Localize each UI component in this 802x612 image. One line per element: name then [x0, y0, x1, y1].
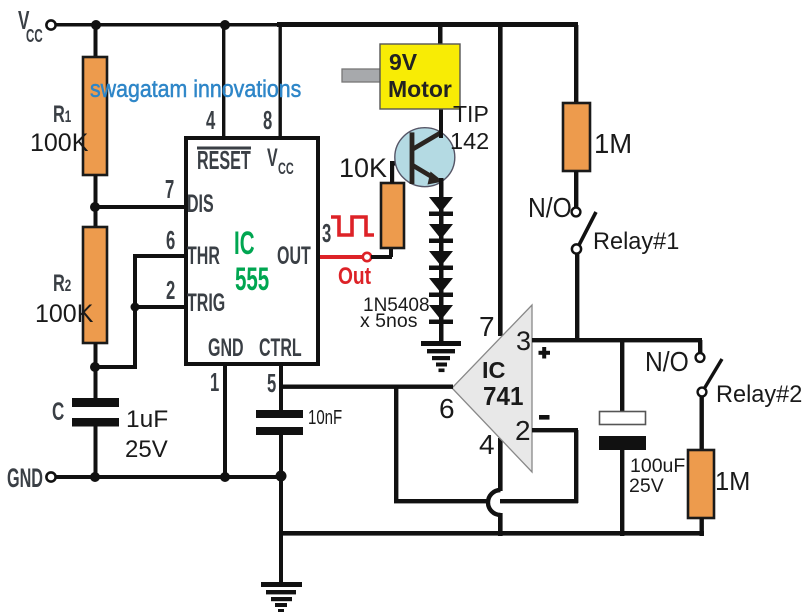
node relay1 pole	[572, 244, 581, 253]
label 741 pin 4	[479, 431, 495, 459]
741 plus sign	[539, 351, 551, 355]
wire motor top	[438, 25, 443, 46]
label OUT	[277, 244, 311, 269]
wire feedback vertical tap	[394, 388, 398, 503]
ground symbol main	[261, 582, 302, 587]
motor 9V body	[380, 44, 460, 109]
label DIS	[187, 192, 214, 217]
label 100K R1	[30, 131, 88, 156]
node junction dot TRIG	[131, 303, 140, 312]
node junction dot C-GND	[90, 472, 100, 482]
node junction dot DIS	[90, 202, 100, 212]
label THR	[187, 244, 220, 269]
wire 10K to base	[390, 161, 394, 183]
label RESET	[197, 147, 251, 173]
watermark swagatam innovations	[90, 78, 301, 102]
label 10K	[339, 155, 387, 182]
wire feedback horizontal right	[500, 499, 578, 503]
label Relay#2	[716, 383, 802, 407]
label 1M relay1	[594, 130, 632, 158]
diode D1	[429, 197, 453, 212]
wire R2 to C	[94, 343, 98, 398]
wire relay2 to 1M	[700, 396, 704, 450]
wire TRIG pin 2	[133, 305, 184, 309]
diode D4	[429, 278, 453, 293]
label 741 pin 3	[516, 328, 531, 355]
diode D2	[429, 224, 453, 239]
node relay2 N/O contact	[696, 353, 705, 362]
wire bottom rail	[279, 531, 704, 536]
wire 1M to N/O	[574, 171, 578, 207]
wire pin 8	[279, 25, 282, 136]
wire C to GND rail	[94, 426, 98, 477]
pin 8	[263, 107, 272, 133]
label R2	[53, 272, 71, 296]
wire pin 4	[222, 25, 225, 136]
label IC 741	[482, 359, 506, 383]
pin 6	[166, 227, 175, 253]
node relay2 pole	[698, 388, 707, 397]
wire junction to THR/TRIG bus	[95, 365, 137, 369]
node junction dot GND-10nF	[276, 471, 287, 482]
node junction dot A	[91, 20, 101, 30]
label TRIG	[187, 291, 225, 316]
wire pin 3 rail	[532, 338, 702, 342]
wire 100uF tap	[620, 340, 624, 411]
wire 741 pin 7	[498, 25, 503, 336]
label 1M relay2	[715, 470, 750, 496]
node GND terminal	[46, 472, 55, 481]
RESET overline	[197, 147, 251, 150]
wire 741 pin 4 upper	[498, 438, 503, 491]
resistor 1M relay2	[688, 450, 714, 518]
capacitor 100uF plate2	[599, 436, 646, 450]
resistor 10K	[381, 183, 404, 248]
label 100uF	[630, 457, 685, 477]
label 9V Motor	[389, 51, 417, 74]
label 10nF	[308, 408, 342, 428]
label Relay#1	[593, 230, 679, 254]
node junction dot B	[220, 20, 230, 30]
wire feedback horizontal left	[394, 499, 490, 503]
transistor Q1 TIP142 body	[395, 128, 455, 187]
pin 2	[166, 277, 175, 303]
pin 4	[206, 107, 215, 133]
relay2 lever	[704, 359, 722, 389]
wire feedback to pin2	[574, 430, 578, 503]
wire THR pin 6	[133, 254, 184, 258]
wire relay1 to pin3 rail	[575, 253, 579, 340]
node junction dot pin1-GND	[220, 472, 230, 482]
capacitor C plate 2	[72, 418, 119, 427]
label 741 pin 7	[479, 313, 495, 341]
pin 1	[210, 369, 219, 395]
node junction dot R2-C	[90, 362, 100, 372]
wire pin 1	[223, 366, 227, 477]
transistor emitter diagonal with arrow	[413, 166, 433, 178]
resistor R1	[83, 57, 107, 175]
wire Out to 10K	[371, 255, 392, 259]
op-amp U2 741 triangle	[452, 305, 532, 472]
wire collector	[439, 107, 443, 138]
diode D5	[429, 305, 453, 320]
wire relay1 drop from rail	[574, 25, 578, 103]
label Out red	[338, 265, 371, 289]
label Vcc	[18, 7, 29, 33]
motor shaft	[342, 69, 381, 82]
label N/O relay2	[645, 348, 689, 376]
label C	[52, 400, 64, 425]
label CTRL	[259, 336, 302, 361]
wire 10nF to ground	[279, 435, 283, 584]
wire pin5 CTRL drop	[279, 366, 283, 410]
label IC 555	[234, 227, 254, 259]
node relay1 N/O contact	[572, 208, 581, 217]
diode D3	[429, 251, 453, 266]
transistor base bar	[410, 132, 415, 184]
label 100K R2	[35, 302, 93, 327]
label 25V	[125, 438, 168, 462]
wire emitter / diode chain	[439, 178, 444, 344]
node Out terminal red	[363, 253, 371, 261]
label 1uF	[126, 408, 168, 433]
label N/O relay1	[528, 194, 572, 222]
transistor collector diagonal	[413, 133, 441, 150]
label R1	[53, 103, 71, 127]
pin 3	[322, 220, 331, 246]
resistor 1M relay1	[563, 103, 590, 171]
741 minus sign	[539, 415, 550, 420]
label GND terminal	[7, 465, 43, 492]
capacitor C plate 1	[72, 398, 119, 407]
wire top rail	[52, 23, 280, 27]
wire OUT red	[320, 255, 364, 259]
label 25V 100uF	[629, 477, 664, 497]
wire DIS pin 7	[95, 205, 184, 209]
capacitor 100uF plate1	[600, 412, 646, 425]
label 741 pin 6	[439, 395, 455, 423]
label TIP 142	[453, 103, 489, 126]
wire 1M2 to bottom rail	[700, 518, 704, 536]
pin 7	[165, 176, 174, 202]
op-amp IC1 555 box	[186, 138, 318, 364]
wire R1 to R2	[94, 175, 98, 227]
wire 741 pin 4 lower	[498, 513, 503, 536]
wire 100uF to bottom rail	[620, 450, 624, 536]
resistor R2	[83, 227, 107, 343]
label VCC pin	[267, 146, 278, 171]
label 1N5408 x 5nos	[363, 296, 430, 315]
wire hop arc pin 4	[488, 490, 501, 515]
label 741 pin 2	[515, 417, 531, 445]
wire GND rail	[51, 475, 283, 479]
relay1 lever	[579, 212, 596, 245]
label GND pin	[208, 336, 244, 361]
ground symbol diode chain	[421, 341, 461, 346]
capacitor 10nF plate2	[256, 427, 303, 435]
wire Vcc to R1	[94, 25, 98, 57]
node Vcc terminal	[46, 20, 55, 29]
wire pin6 to CTRL	[282, 385, 453, 389]
pin 5	[267, 370, 276, 396]
wire THR/TRIG vertical bus	[133, 256, 137, 369]
squarewave symbol red	[331, 217, 374, 235]
capacitor 10nF plate1	[256, 410, 303, 418]
